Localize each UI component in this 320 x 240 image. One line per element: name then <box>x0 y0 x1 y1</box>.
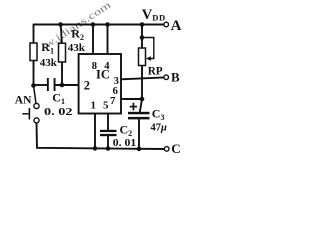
wire R1 bottom lead <box>33 61 35 87</box>
wire pin4 stub <box>107 25 109 55</box>
pushbutton AN <box>34 103 39 108</box>
terminal B <box>164 75 169 80</box>
node C3 bus <box>137 147 142 152</box>
capacitor C3 polarity + <box>130 106 137 108</box>
wire node to C3 <box>140 99 142 112</box>
svg-text:2: 2 <box>84 79 90 93</box>
svg-text:7: 7 <box>110 95 116 107</box>
svg-text:4: 4 <box>104 61 110 72</box>
wire pin8 stub <box>92 25 94 55</box>
wire C2 to bus <box>107 136 109 149</box>
node pin8 top <box>91 22 96 27</box>
svg-text:8: 8 <box>92 61 97 72</box>
svg-text:A: A <box>171 18 182 34</box>
wire button to ground bus <box>37 123 165 149</box>
node pin4 top <box>105 22 110 27</box>
node R2 top <box>58 22 63 27</box>
svg-text:47μ: 47μ <box>151 123 168 134</box>
node R1/C1/AN junction <box>31 83 36 88</box>
wire pin7 <box>121 98 142 100</box>
op-amp IC 555 box <box>79 54 121 114</box>
wire pin1 to bus <box>94 114 96 149</box>
wire VDD top bus <box>34 24 164 26</box>
wire RP top lead <box>141 25 143 49</box>
watermark <box>43 0 114 51</box>
svg-text:AN: AN <box>15 94 32 106</box>
node R2 bottom junction <box>60 83 65 88</box>
svg-text:RP: RP <box>148 66 163 78</box>
node RP top bus <box>140 22 145 27</box>
wire RP to pin7 node <box>141 66 143 100</box>
wire left rail top <box>33 24 35 44</box>
svg-text:1: 1 <box>91 99 97 111</box>
wire C1 to pin2 <box>56 84 79 86</box>
node pin1 bus <box>93 146 98 151</box>
svg-text:43k: 43k <box>40 57 58 69</box>
capacitor C2 <box>100 130 117 132</box>
terminal A <box>164 22 169 27</box>
wire R2 top lead <box>61 25 62 45</box>
svg-text:C: C <box>171 141 180 156</box>
node C2 bus <box>106 146 111 151</box>
svg-text:5: 5 <box>103 99 109 111</box>
wire C3 to bus <box>138 119 140 149</box>
node pin7/RP/C3 <box>140 97 145 102</box>
svg-text:B: B <box>171 70 180 85</box>
wire C1 left lead <box>34 84 48 86</box>
wire to button <box>34 86 37 104</box>
resistor R1 <box>30 43 37 61</box>
resistor R2 <box>59 43 66 62</box>
capacitor C3 <box>128 112 150 115</box>
capacitor C1 <box>47 78 49 91</box>
svg-text:43k: 43k <box>68 42 86 54</box>
wire pin3 to B <box>121 77 164 79</box>
terminal C <box>164 147 169 152</box>
potentiometer RP <box>139 48 146 66</box>
node RP wiper tap <box>140 35 145 40</box>
svg-text:0. 01: 0. 01 <box>113 138 137 149</box>
svg-text:0. 02: 0. 02 <box>44 107 73 118</box>
wire pin5 stub <box>107 114 109 131</box>
wire R2 bottom lead <box>61 62 63 85</box>
RP wiper arrowhead <box>146 56 151 60</box>
wire RP wiper bracket <box>142 38 154 59</box>
